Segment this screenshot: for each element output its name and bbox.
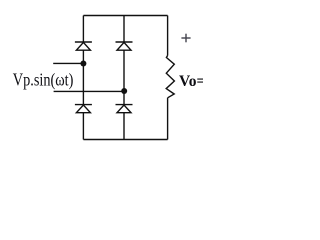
- junction node B (dot): [121, 88, 127, 94]
- wire left branch middle (D1 anode to D3 cathode): [82, 50, 84, 104]
- diode D4: [116, 105, 133, 113]
- wire AC input 1: [53, 62, 83, 64]
- resistor RL (load): [166, 56, 174, 98]
- wire top rail: [83, 15, 167, 17]
- svg-text:Vp.sin(ωt): Vp.sin(ωt): [13, 70, 74, 91]
- wire left branch bottom (D3 anode to bottom rail): [82, 113, 84, 140]
- wire bottom rail: [83, 139, 167, 141]
- wire right branch bottom (resistor to bottom rail): [167, 98, 169, 140]
- wire left branch top (rail to D1 cathode): [82, 16, 84, 43]
- wire middle branch bottom (D4 anode to bottom rail): [123, 113, 125, 140]
- label + (output polarity): [181, 34, 190, 43]
- label Vp.sin(ωt): [13, 70, 74, 91]
- wire right branch top (rail to resistor): [167, 16, 169, 56]
- svg-text:Vo=: Vo=: [179, 73, 203, 90]
- wire AC input 2: [54, 90, 124, 92]
- diode D2: [116, 42, 133, 50]
- diode D3: [75, 105, 92, 113]
- diode D1: [75, 42, 92, 50]
- wire middle branch top (rail to D2 cathode): [123, 16, 125, 43]
- wire middle branch middle (D2 anode to D4 cathode): [123, 50, 125, 104]
- junction node A (dot): [80, 61, 86, 67]
- label Vo=: [179, 73, 205, 90]
